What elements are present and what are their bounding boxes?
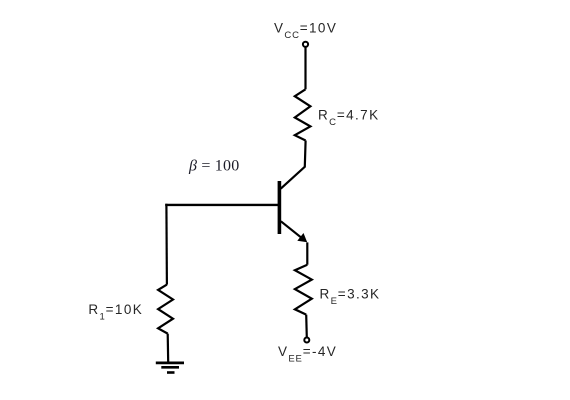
terminal VCC — [303, 42, 308, 47]
wire emitter to RE — [306, 242, 308, 264]
transistor Q1 base bar — [278, 181, 282, 234]
svg-text:β = 100: β = 100 — [188, 157, 239, 174]
wire base node down to R1 — [165, 204, 168, 285]
emitter with arrow — [281, 221, 302, 238]
wire VCC to RC — [304, 47, 306, 89]
wire R1 to ground — [167, 334, 170, 363]
svg-text:VEE=-4V: VEE=-4V — [278, 344, 337, 365]
base wire — [165, 204, 281, 206]
wire RC to collector — [281, 141, 306, 189]
resistor RE — [295, 265, 312, 315]
ground — [156, 363, 184, 373]
resistor R1 — [158, 285, 173, 334]
svg-text:RE=3.3K: RE=3.3K — [320, 287, 381, 308]
svg-text:R1=10K: R1=10K — [88, 302, 143, 323]
wire RE to VEE terminal — [305, 315, 308, 338]
resistor RC — [295, 89, 311, 140]
svg-text:VCC=10V: VCC=10V — [274, 21, 337, 42]
svg-text:RC=4.7K: RC=4.7K — [318, 107, 379, 128]
terminal VEE — [304, 338, 309, 343]
